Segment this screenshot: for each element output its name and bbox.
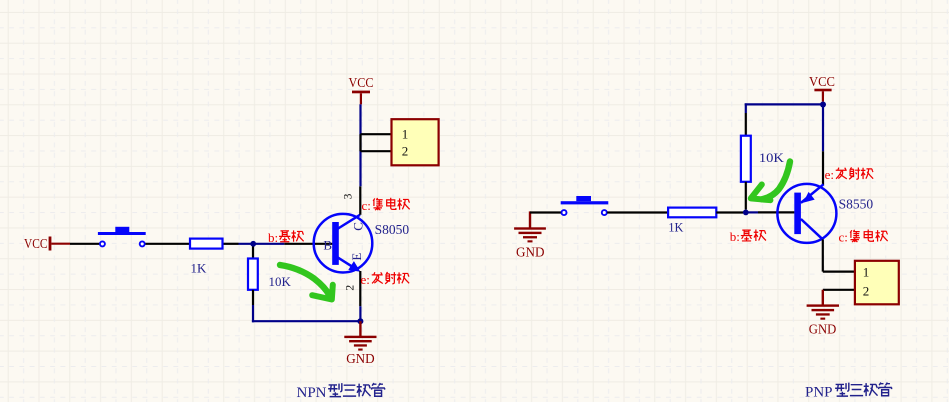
svg-text:PNP: PNP: [805, 385, 833, 401]
svg-text:2: 2: [344, 285, 356, 291]
svg-text:e:: e:: [825, 167, 834, 182]
svg-text:C: C: [351, 222, 366, 231]
svg-text:VCC: VCC: [349, 75, 374, 90]
svg-text:c:: c:: [362, 198, 371, 213]
svg-text:1: 1: [863, 265, 870, 280]
svg-text:c:: c:: [839, 230, 848, 245]
svg-text:1: 1: [402, 127, 409, 142]
svg-text:VCC: VCC: [809, 74, 835, 89]
svg-text:2: 2: [863, 284, 870, 299]
svg-text:NPN: NPN: [297, 385, 327, 401]
svg-text:3: 3: [343, 193, 355, 199]
svg-text:S8550: S8550: [839, 197, 874, 212]
svg-text:GND: GND: [516, 245, 545, 260]
svg-text:10K: 10K: [759, 150, 785, 165]
svg-text:E: E: [349, 253, 364, 261]
svg-text:GND: GND: [346, 351, 375, 366]
svg-text:GND: GND: [809, 322, 837, 337]
svg-text:b:: b:: [730, 229, 740, 244]
svg-text:1K: 1K: [668, 220, 684, 235]
svg-text:2: 2: [402, 144, 409, 159]
svg-text:S8050: S8050: [375, 222, 410, 237]
svg-text:b:: b:: [268, 230, 278, 245]
svg-text:1K: 1K: [191, 261, 207, 276]
svg-text:VCC: VCC: [24, 236, 48, 251]
svg-text:e:: e:: [361, 272, 370, 287]
svg-text:B: B: [323, 238, 332, 253]
svg-text:10K: 10K: [269, 274, 292, 289]
